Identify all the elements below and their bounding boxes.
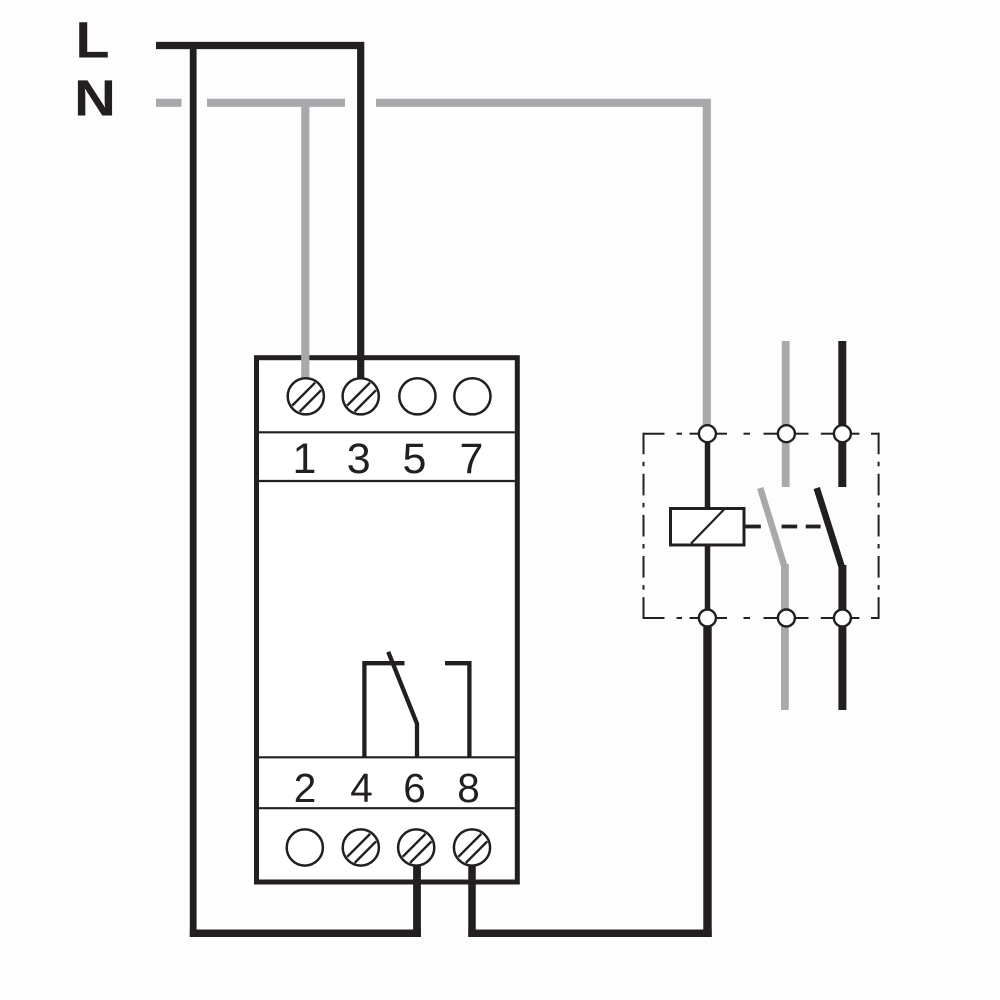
black contact feed stub (top) xyxy=(838,341,846,487)
terminal 4 screw (wired) xyxy=(343,829,379,865)
grey contact tail below xyxy=(781,564,789,710)
terminal 6 screw (wired) xyxy=(398,829,434,865)
node circle bottom-middle xyxy=(778,610,795,627)
svg-text:1: 1 xyxy=(292,435,316,483)
node circle bottom-left (coil) xyxy=(699,610,716,627)
svg-text:N: N xyxy=(74,70,116,127)
internal switch contact (pins 4-6-8) xyxy=(364,652,469,757)
terminal 8 screw (wired) xyxy=(454,829,490,865)
black contact tail below xyxy=(838,565,846,710)
terminal 5 screw xyxy=(399,378,435,414)
node circle top-right xyxy=(834,425,851,442)
svg-text:6: 6 xyxy=(403,765,426,811)
wire: L down left side xyxy=(190,42,197,937)
node circle bottom-right xyxy=(834,610,851,627)
svg-text:2: 2 xyxy=(294,765,317,811)
wire: drop from terminal 8 xyxy=(468,858,476,937)
grey contact blade xyxy=(760,488,785,568)
black contact blade xyxy=(817,488,843,569)
node circle top-middle xyxy=(778,425,795,442)
wire: bottom run from terminal 8 to relay column xyxy=(468,929,711,937)
relay coil K1 xyxy=(671,509,745,546)
svg-text:8: 8 xyxy=(457,765,480,811)
svg-text:5: 5 xyxy=(403,435,427,483)
wire: riser into terminal 6 xyxy=(413,858,421,937)
terminal 1 screw (wired) xyxy=(288,378,324,414)
svg-text:3: 3 xyxy=(347,435,371,483)
wire: N line (grey) left segment xyxy=(156,99,182,107)
node circle top-left (coil) xyxy=(699,425,716,442)
svg-text:L: L xyxy=(76,11,110,68)
svg-text:4: 4 xyxy=(350,765,373,811)
relay coil wire (bottom) xyxy=(705,545,711,616)
device body (module outline) xyxy=(257,358,518,882)
relay coil wire (top) xyxy=(705,436,711,508)
mechanical linkage (dashed) from coil to contacts xyxy=(745,525,760,529)
wire: bottom run from L to terminal 6 xyxy=(190,929,421,937)
grey contact feed stub (top) xyxy=(782,341,790,487)
wire: L line (black) horizontal with corner into terminal 3 drop xyxy=(156,46,361,389)
wire: relay column riser to coil bottom node xyxy=(703,624,711,937)
wire: grey branch down to terminal 1 xyxy=(301,103,309,388)
relay block dash-dot border xyxy=(643,433,880,619)
terminal 7 screw xyxy=(454,378,490,414)
terminal 2 screw xyxy=(287,829,323,865)
wire: N line (grey) middle segment xyxy=(207,99,345,107)
terminal 3 screw (wired) xyxy=(343,378,379,414)
svg-text:7: 7 xyxy=(460,435,484,483)
wire: N line (grey) right segment turning down to relay box xyxy=(376,103,707,430)
